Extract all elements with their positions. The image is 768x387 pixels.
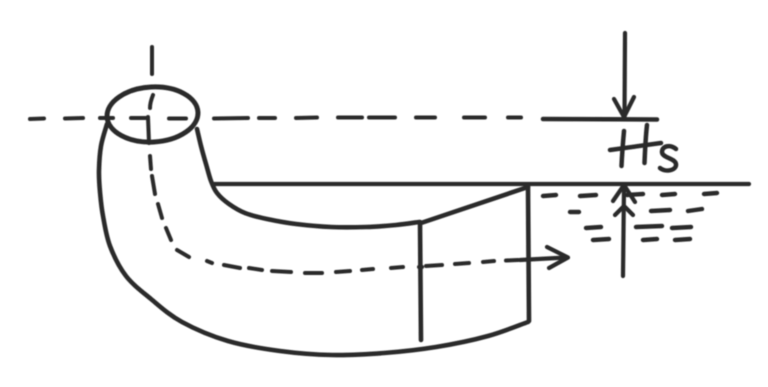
- flow centerline dashes inside tube: [152, 176, 518, 273]
- dimension arrow down (to centerline) shaft: [622, 33, 627, 117]
- water hatching row 2: [570, 209, 702, 212]
- dimension arrow up head (outer chevron): [613, 185, 635, 202]
- dimension arrow up head (inner chevron): [615, 206, 633, 215]
- horizontal centerline solid segment under down-arrow: [543, 117, 657, 122]
- flow arrow shaft: [520, 258, 566, 261]
- water hatching row 4: [593, 239, 690, 240]
- water surface line: [214, 182, 749, 186]
- pipe inner wall: [197, 129, 419, 227]
- pipe inlet ellipse: [106, 85, 200, 145]
- label Hs : letter H right stroke: [645, 125, 648, 163]
- horizontal centerline (dashed), left of inlet: [30, 118, 113, 119]
- outlet front vertical edge: [420, 222, 421, 340]
- label Hs : letter s: [660, 146, 676, 170]
- label Hs : letter H crossbar: [610, 143, 661, 150]
- dimension arrow up (from water surface) shaft: [623, 186, 624, 276]
- pipe outer wall: [99, 124, 528, 355]
- horizontal centerline dash inside inlet (cross mark): [131, 117, 149, 143]
- vertical centerline (dashed) above and through inlet: [150, 47, 153, 108]
- water hatching row 1: [543, 193, 717, 196]
- horizontal centerline (dashed), right of inlet: [169, 118, 521, 119]
- dimension arrow down head: [614, 97, 634, 117]
- vertical centerline (dashed) below inlet: [150, 156, 151, 169]
- outlet top edge (diagonal): [421, 187, 528, 223]
- outlet rear vertical edge: [528, 187, 529, 321]
- flow arrow head: [547, 247, 568, 268]
- label Hs : letter H left stroke: [622, 131, 625, 166]
- water hatching row 3: [586, 226, 691, 228]
